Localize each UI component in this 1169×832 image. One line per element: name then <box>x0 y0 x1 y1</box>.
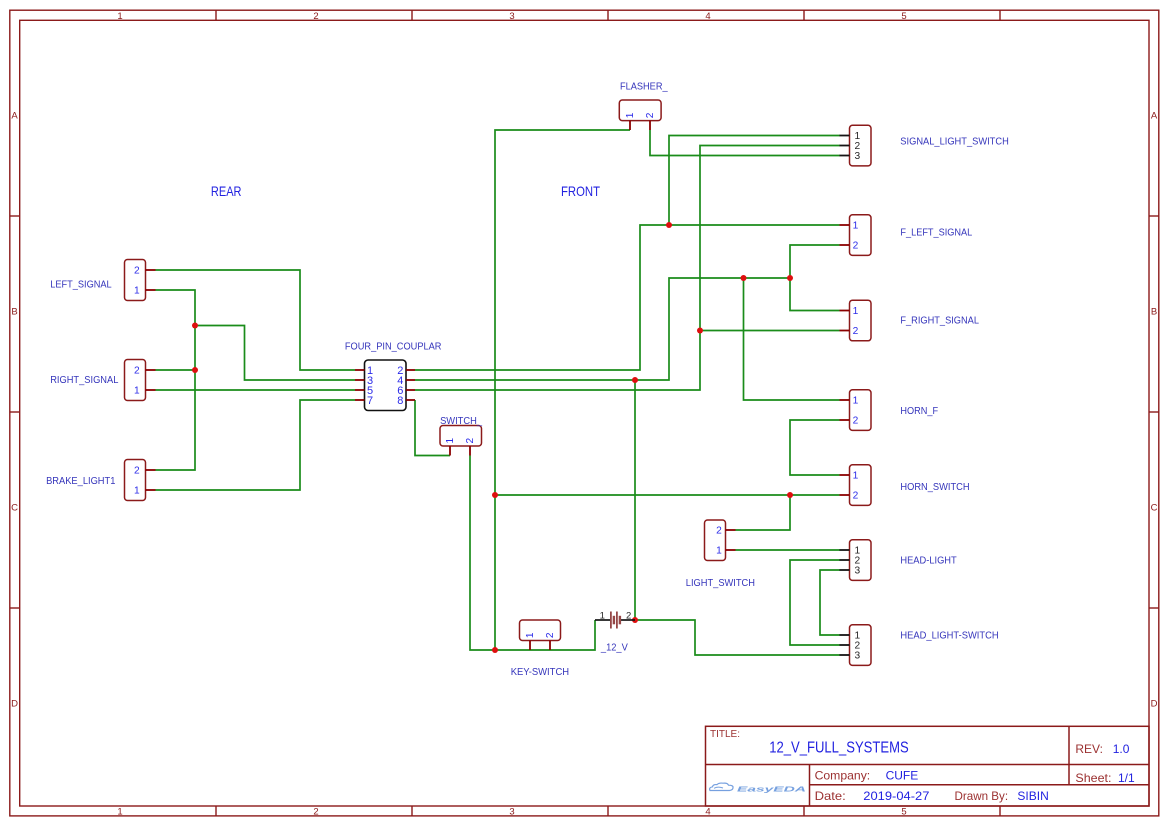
wire battery terminal 2 to HEAD_LIGHT-SWITCH pin3 <box>635 620 840 655</box>
title block <box>706 726 1150 806</box>
wire node (743.5,278) down to HORN_F pin1 <box>744 278 840 400</box>
svg-text:5: 5 <box>901 11 906 22</box>
svg-text:D: D <box>1151 698 1158 709</box>
svg-text:REAR: REAR <box>211 183 242 199</box>
connector HORN_SWITCH 2-pin <box>840 465 970 506</box>
svg-text:1: 1 <box>525 632 536 638</box>
svg-text:SIBIN: SIBIN <box>1017 789 1048 803</box>
svg-text:3: 3 <box>509 807 514 818</box>
wire FOUR_PIN_COUPLAR pin4 to node (790,278) <box>415 278 790 380</box>
EasyEDA logo <box>710 783 806 793</box>
svg-text:EasyEDA: EasyEDA <box>737 784 806 793</box>
wire RIGHT_SIGNAL pin1 to FOUR_PIN_COUPLAR pin5 <box>156 389 356 391</box>
svg-text:1: 1 <box>716 546 722 557</box>
svg-text:Date:: Date: <box>815 789 846 803</box>
svg-text:CUFE: CUFE <box>886 769 919 783</box>
svg-text:F_LEFT_SIGNAL: F_LEFT_SIGNAL <box>900 228 972 239</box>
wire node (495,495) to HORN_SWITCH pin2 <box>495 494 840 496</box>
connector BRAKE_LIGHT1 2-pin <box>46 460 155 501</box>
junction at (495,495) <box>492 492 498 498</box>
svg-text:2: 2 <box>645 112 656 118</box>
svg-text:RIGHT_SIGNAL: RIGHT_SIGNAL <box>50 375 118 386</box>
svg-text:A: A <box>1151 110 1158 121</box>
svg-text:1: 1 <box>853 471 859 482</box>
wire branch node at (195,325.5) to FOUR_PIN_COUPLAR pin3 <box>195 326 355 381</box>
wire node (635,380) down to battery _12_V terminal 2 <box>634 380 636 620</box>
junction at (495,650) <box>492 647 498 653</box>
svg-text:FOUR_PIN_COUPLAR: FOUR_PIN_COUPLAR <box>345 341 442 352</box>
wire HEAD-LIGHT pin3 to HEAD_LIGHT-SWITCH pin1 <box>820 570 840 635</box>
connector FOUR_PIN_COUPLAR 8-pin <box>345 341 442 410</box>
svg-text:3: 3 <box>854 566 860 577</box>
svg-text:HEAD-LIGHT: HEAD-LIGHT <box>900 556 956 567</box>
svg-text:1: 1 <box>853 396 859 407</box>
connector F_LEFT_SIGNAL 2-pin <box>840 215 973 256</box>
connector LEFT_SIGNAL 2-pin <box>50 260 155 301</box>
wire RIGHT_SIGNAL pin2 to node (195,370) <box>156 369 196 371</box>
svg-text:HEAD_LIGHT-SWITCH: HEAD_LIGHT-SWITCH <box>900 631 998 642</box>
svg-text:1: 1 <box>117 807 122 818</box>
svg-text:LIGHT_SWITCH: LIGHT_SWITCH <box>686 578 755 589</box>
svg-text:1: 1 <box>445 438 456 444</box>
svg-text:1: 1 <box>134 286 140 297</box>
wire LEFT_SIGNAL pin2 to FOUR_PIN_COUPLAR pin1 <box>156 270 356 370</box>
svg-text:4: 4 <box>705 807 710 818</box>
svg-text:2: 2 <box>134 266 140 277</box>
wire FOUR_PIN_COUPLAR pin6 up to SIGNAL_LIGHT_SWITCH pin2 <box>415 146 840 391</box>
svg-text:5: 5 <box>901 807 906 818</box>
svg-text:Drawn By:: Drawn By: <box>955 789 1009 803</box>
svg-text:LEFT_SIGNAL: LEFT_SIGNAL <box>50 280 112 291</box>
connector HORN_F 2-pin <box>840 390 939 431</box>
svg-text:C: C <box>1151 502 1158 513</box>
svg-text:12_V_FULL_SYSTEMS: 12_V_FULL_SYSTEMS <box>769 740 909 757</box>
wire node (790,278) to F_LEFT_SIGNAL pin2 and F_RIGHT_SIGNAL pin1 <box>790 245 840 311</box>
connector RIGHT_SIGNAL 2-pin <box>50 360 155 401</box>
connector SIGNAL_LIGHT_SWITCH 3-pin <box>840 125 1009 166</box>
svg-text:2: 2 <box>853 241 859 252</box>
wire node (669,225) up to SIGNAL_LIGHT_SWITCH pin1 <box>669 136 840 226</box>
svg-text:2: 2 <box>313 807 318 818</box>
connector F_RIGHT_SIGNAL 2-pin <box>840 300 980 341</box>
svg-text:1: 1 <box>625 112 636 118</box>
svg-text:1: 1 <box>134 486 140 497</box>
wire node (700,330.5) to F_RIGHT_SIGNAL pin2 <box>700 330 840 332</box>
svg-text:BRAKE_LIGHT1: BRAKE_LIGHT1 <box>46 476 116 487</box>
svg-text:1: 1 <box>134 386 140 397</box>
svg-text:Company:: Company: <box>815 769 871 783</box>
wire BRAKE_LIGHT1 pin1 to FOUR_PIN_COUPLAR pin7 <box>156 400 356 490</box>
svg-text:2: 2 <box>545 632 556 638</box>
svg-text:D: D <box>11 698 18 709</box>
svg-text:HORN_F: HORN_F <box>900 406 938 417</box>
svg-text:REV:: REV: <box>1075 742 1103 756</box>
svg-text:A: A <box>11 110 18 121</box>
junction at (743.5,278) <box>741 275 747 281</box>
svg-text:SWITCH_: SWITCH_ <box>440 416 482 427</box>
svg-text:C: C <box>11 502 18 513</box>
svg-text:1: 1 <box>600 610 605 621</box>
connector KEY-SWITCH 2-pin <box>511 620 569 678</box>
svg-text:2: 2 <box>716 526 722 537</box>
junction at (669,225) <box>666 222 672 228</box>
svg-text:7: 7 <box>367 395 373 407</box>
svg-text:2: 2 <box>134 366 140 377</box>
svg-text:1: 1 <box>853 221 859 232</box>
svg-text:2: 2 <box>626 610 631 621</box>
connector HEAD-LIGHT 3-pin <box>840 540 957 581</box>
svg-text:F_RIGHT_SIGNAL: F_RIGHT_SIGNAL <box>900 316 979 327</box>
svg-text:HORN_SWITCH: HORN_SWITCH <box>900 482 969 493</box>
svg-text:B: B <box>1151 306 1157 317</box>
svg-text:B: B <box>11 306 17 317</box>
svg-text:2: 2 <box>134 466 140 477</box>
junction at (700,330.5) <box>697 328 703 334</box>
svg-text:TITLE:: TITLE: <box>710 729 740 740</box>
svg-text:Sheet:: Sheet: <box>1075 771 1111 785</box>
junction at (635,620) <box>632 617 638 623</box>
svg-text:2019-04-27: 2019-04-27 <box>863 789 929 803</box>
junction at (790,495) <box>787 492 793 498</box>
svg-text:2: 2 <box>465 438 476 444</box>
svg-text:1.0: 1.0 <box>1113 742 1130 756</box>
svg-text:1/1: 1/1 <box>1118 771 1135 785</box>
connector HEAD_LIGHT-SWITCH 3-pin <box>840 625 999 666</box>
svg-text:2: 2 <box>853 491 859 502</box>
svg-text:4: 4 <box>705 11 710 22</box>
wire SWITCH pin2 to battery _12_V terminal 1 <box>470 456 595 651</box>
svg-text:2: 2 <box>313 11 318 22</box>
svg-text:3: 3 <box>854 151 860 162</box>
wire FOUR_PIN_COUPLAR pin2 to F_LEFT_SIGNAL pin1 <box>415 225 840 370</box>
svg-text:2: 2 <box>853 326 859 337</box>
junction at (635,380) <box>632 377 638 383</box>
wire FLASHER pin2 to SIGNAL_LIGHT_SWITCH pin3 <box>650 130 840 156</box>
svg-text:KEY-SWITCH: KEY-SWITCH <box>511 667 569 678</box>
wire FOUR_PIN_COUPLAR pin8 to SWITCH pin1 <box>415 400 450 456</box>
svg-text:1: 1 <box>853 306 859 317</box>
svg-text:3: 3 <box>854 651 860 662</box>
connector FLASHER_ J? 2-pin <box>619 82 668 131</box>
connector SWITCH_ 2-pin <box>440 416 482 456</box>
svg-text:SIGNAL_LIGHT_SWITCH: SIGNAL_LIGHT_SWITCH <box>900 137 1009 148</box>
junction at (195,370) <box>192 367 198 373</box>
connector LIGHT_SWITCH 2-pin <box>686 520 755 589</box>
wire LEFT_SIGNAL pin1 to BRAKE_LIGHT1 pin2 <box>156 290 196 470</box>
junction at (195,325.5) <box>192 323 198 329</box>
wire LIGHT_SWITCH pin2 up to node (790,495) <box>736 495 791 530</box>
wire HORN_F pin2 to HORN_SWITCH pin1 <box>790 420 840 475</box>
battery _12_V <box>595 610 635 653</box>
svg-text:3: 3 <box>509 11 514 22</box>
svg-text:8: 8 <box>397 395 403 407</box>
svg-text:FRONT: FRONT <box>561 183 600 199</box>
svg-text:2: 2 <box>853 416 859 427</box>
svg-text:_12_V: _12_V <box>600 643 628 654</box>
wire FLASHER pin1 down to key-switch row <box>495 130 630 650</box>
wire HEAD-LIGHT pin2 to HEAD_LIGHT-SWITCH pin2 <box>790 560 840 645</box>
wire LIGHT_SWITCH pin1 to HEAD-LIGHT pin1 <box>736 549 841 551</box>
svg-text:FLASHER_: FLASHER_ <box>620 82 668 93</box>
junction at (790,278) <box>787 275 793 281</box>
svg-text:1: 1 <box>117 11 122 22</box>
